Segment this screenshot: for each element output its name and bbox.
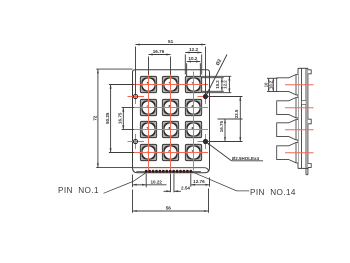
svg-text:51: 51 (168, 39, 174, 44)
dim 16.76 (149, 54, 171, 56)
dim 72 extension lines (96, 68, 132, 70)
svg-text:50.25: 50.25 (105, 112, 110, 124)
dim 51 extension lines (135, 47, 137, 95)
leader PIN NO.14 (191, 171, 250, 191)
svg-text:72: 72 (93, 115, 98, 121)
dim 12.76 extension lines (190, 174, 192, 187)
connector strip upper line (133, 168, 209, 172)
dim 16.75 right extension line (218, 118, 243, 120)
dim 10.2 (187, 61, 201, 63)
svg-text:16.75: 16.75 (118, 112, 123, 124)
side dim 10.2 (272, 78, 274, 91)
dim 10.22 extension lines (132, 175, 134, 188)
red hole crosshairs (128, 96, 145, 98)
svg-text:10.2: 10.2 (215, 80, 220, 89)
svg-text:33.5: 33.5 (234, 109, 239, 118)
dim 2.54 (164, 190, 171, 192)
right dim ext lines square (202, 75, 231, 77)
svg-text:12.2: 12.2 (223, 80, 228, 89)
dim 16.75 right (224, 119, 226, 142)
svg-text:10.22: 10.22 (150, 180, 162, 185)
leader PIN NO.1 (104, 173, 147, 194)
svg-text:10.2: 10.2 (268, 80, 273, 89)
leader 2.5HOLEx4 (206, 142, 232, 161)
svg-text:12.2: 12.2 (189, 47, 198, 52)
dim 10.2 extension lines (186, 63, 188, 76)
dim 16.75 left (122, 108, 124, 130)
connector pin row (14 pins) (145, 170, 148, 173)
side dim ext lines (267, 77, 277, 79)
mounting hole bottom-right (203, 139, 207, 143)
svg-text:Ø2: Ø2 (215, 58, 223, 67)
dim 56 extension lines (132, 190, 134, 213)
dim 10.22 (133, 184, 167, 186)
dim 56 (133, 210, 209, 212)
mounting hole bottom-left (133, 139, 137, 143)
right dim ext lines circle (202, 77, 224, 79)
svg-text:PIN NO.1: PIN NO.1 (58, 186, 99, 195)
mounting hole top-left (133, 94, 137, 98)
mounting hole top-right (203, 94, 207, 98)
dim 72 (97, 69, 99, 168)
svg-text:12.76: 12.76 (193, 179, 205, 184)
keypad panel outline (133, 70, 210, 173)
svg-text:2.54: 2.54 (181, 186, 190, 191)
dim 51 (136, 44, 206, 46)
dim 16.75 left extension lines (122, 107, 134, 109)
dim 2.54 extension lines (170, 174, 172, 193)
side dim 10 (268, 78, 270, 91)
side view red centerlines (285, 84, 314, 86)
svg-text:Ø2.5HOLEx4: Ø2.5HOLEx4 (232, 156, 260, 161)
svg-text:PIN NO.14: PIN NO.14 (250, 188, 296, 197)
dim 33.5 extension lines (209, 96, 243, 98)
svg-text:10.2: 10.2 (188, 56, 197, 61)
right dim 12.2 vertical (228, 76, 230, 92)
red column and row centerlines (148, 72, 150, 171)
dim 33.5 (239, 97, 241, 142)
svg-text:16.76: 16.76 (153, 49, 165, 54)
leader dia2 to top-right hole (206, 55, 228, 97)
side view body and PCB (298, 68, 308, 168)
svg-text:56: 56 (166, 205, 172, 210)
dim 12.2 extension lines (184, 54, 186, 74)
right dim 10.2 vertical (221, 78, 223, 92)
dim 50.25 extension lines (109, 84, 134, 86)
svg-text:16.75: 16.75 (219, 120, 224, 132)
dim 50.25 (110, 85, 112, 153)
side view 4 button profiles (277, 75, 298, 95)
connector strip lower line (136, 171, 201, 173)
side view right tabs and hook (308, 70, 311, 74)
keypad 12 keys grid (140, 76, 156, 92)
dim 16.76 extension lines (148, 57, 150, 75)
dim 12.76 (191, 184, 210, 186)
dim 12.2 (185, 52, 201, 54)
